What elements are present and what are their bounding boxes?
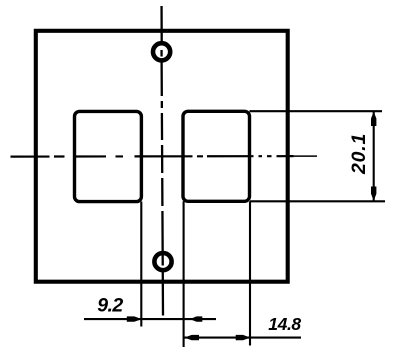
svg-text:9.2: 9.2 [97, 295, 123, 317]
svg-text:14.8: 14.8 [268, 314, 301, 334]
svg-text:20.1: 20.1 [348, 133, 370, 175]
